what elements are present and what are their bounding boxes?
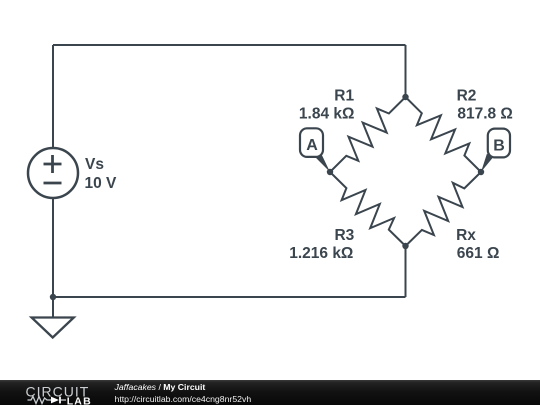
CircuitLab logo wordmark CIRCUIT bbox=[26, 384, 90, 400]
junction node A bbox=[327, 169, 333, 175]
label Rx bbox=[456, 227, 476, 244]
svg-text:http://circuitlab.com/ce4cng8n: http://circuitlab.com/ce4cng8nr52vh bbox=[115, 394, 252, 404]
svg-text:Jaffacakes / My Circuit: Jaffacakes / My Circuit bbox=[114, 382, 206, 392]
svg-text:1.84 kΩ: 1.84 kΩ bbox=[299, 106, 355, 123]
svg-text:1.216 kΩ: 1.216 kΩ bbox=[289, 245, 353, 262]
net flag A bbox=[300, 128, 330, 172]
attribution line 1 bbox=[114, 382, 206, 392]
resistor R2 bbox=[406, 97, 482, 172]
wire left vertical (top corner to source top) bbox=[52, 45, 54, 148]
wire top horizontal bbox=[53, 44, 406, 46]
ground bbox=[32, 297, 74, 338]
wire bridge bottom to bottom rail bbox=[405, 246, 407, 297]
resistor R1 bbox=[330, 97, 406, 172]
attribution line 2 url bbox=[115, 394, 252, 404]
label R3 bbox=[334, 227, 354, 244]
value 10 V bbox=[85, 175, 118, 192]
CircuitLab logo wordmark LAB bbox=[67, 395, 92, 405]
label R1 bbox=[334, 88, 354, 105]
wire right vertical drop to bridge top bbox=[405, 45, 407, 97]
svg-text:661 Ω: 661 Ω bbox=[457, 245, 500, 262]
footer bar bbox=[0, 380, 540, 405]
junction node top bbox=[402, 94, 408, 100]
value R2 817.8 Ohm bbox=[457, 106, 513, 123]
svg-text:817.8 Ω: 817.8 Ω bbox=[457, 106, 513, 123]
svg-text:R3: R3 bbox=[334, 227, 354, 244]
value Rx 661 Ohm bbox=[457, 245, 500, 262]
junction node B bbox=[478, 169, 484, 175]
junction node bottom bbox=[402, 243, 408, 249]
svg-text:A: A bbox=[306, 137, 318, 154]
wire bottom horizontal bbox=[53, 296, 406, 298]
value R3 1.216 kOhm bbox=[289, 245, 353, 262]
svg-text:B: B bbox=[493, 138, 505, 155]
svg-text:R2: R2 bbox=[457, 88, 477, 105]
svg-text:R1: R1 bbox=[334, 88, 354, 105]
net flag B bbox=[481, 129, 510, 172]
wire source bottom to ground junction bbox=[52, 198, 54, 297]
CircuitLab logo resistor-diode glyph bbox=[28, 397, 67, 404]
resistor Rx bbox=[406, 172, 482, 246]
junction ground node bbox=[50, 294, 56, 300]
svg-text:Vs: Vs bbox=[85, 156, 104, 173]
svg-text:LAB: LAB bbox=[67, 395, 92, 405]
label R2 bbox=[457, 88, 477, 105]
resistor R3 bbox=[330, 172, 406, 246]
label Vs bbox=[85, 156, 104, 173]
svg-text:Rx: Rx bbox=[456, 227, 476, 244]
voltage source Vs bbox=[28, 148, 78, 198]
value R1 1.84 kOhm bbox=[299, 106, 355, 123]
svg-text:10 V: 10 V bbox=[85, 175, 118, 192]
